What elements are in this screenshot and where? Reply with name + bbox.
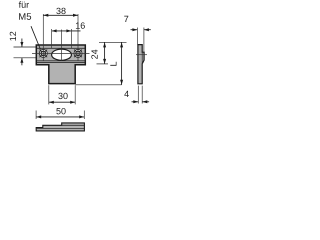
svg-text:50: 50 <box>56 106 66 116</box>
left hole counterbore outer circle <box>39 49 47 57</box>
dim 4 ext lines <box>137 86 139 104</box>
dim 12 line with outside arrows <box>21 39 23 48</box>
dim 24 line with arrows <box>104 42 106 64</box>
dim L bottom ext line <box>76 84 122 86</box>
hole centerline horizontal <box>32 53 90 55</box>
dim 4 line outside arrows <box>132 101 139 103</box>
dim 30 line with arrows <box>49 101 75 103</box>
node: slot vertical centerline <box>61 30 63 61</box>
side view centerline stub <box>136 54 147 56</box>
dim 12 ext lines <box>14 46 37 48</box>
svg-text:L: L <box>108 61 118 66</box>
dim 50 ext lines <box>35 111 37 120</box>
dim 7 ext lines <box>136 28 138 45</box>
svg-text:für: für <box>19 0 30 10</box>
svg-text:M5: M5 <box>18 12 31 23</box>
dim 24/L shared top ext line <box>99 41 127 43</box>
node: left hole vertical centerline <box>42 14 44 61</box>
dim 38 line with arrows <box>43 14 78 16</box>
slot (oblong hole) <box>52 49 72 60</box>
side view plate edge line behind boss <box>141 52 143 64</box>
svg-text:12: 12 <box>8 31 18 41</box>
dim 7 line outside arrows <box>131 29 138 31</box>
bottom view inner line mid step <box>62 124 84 126</box>
svg-text:30: 30 <box>58 91 68 101</box>
right hole thread X marks <box>74 50 82 58</box>
right hole counterbore outer circle <box>74 49 82 57</box>
dim 24 bottom ext line <box>97 63 109 65</box>
left hole thread X marks <box>39 50 47 58</box>
side view bar with boss <box>138 45 144 84</box>
svg-text:4: 4 <box>124 89 129 99</box>
svg-text:16: 16 <box>75 21 85 31</box>
svg-text:7: 7 <box>124 14 129 24</box>
front view T-plate body <box>36 45 85 84</box>
bottom view inner line near bottom <box>37 127 84 129</box>
chamfer edge line <box>37 62 85 64</box>
dim16 ext lines <box>51 29 53 49</box>
boss bottom edge line <box>37 60 85 62</box>
dim L line with arrows <box>121 42 123 84</box>
svg-text:24: 24 <box>90 49 100 59</box>
dim 16 line with arrows <box>52 30 81 32</box>
dim 30 ext lines <box>48 85 50 104</box>
dim 50 line with arrows <box>36 116 84 118</box>
leader line from M5 text to left hole <box>31 26 41 49</box>
left hole thread inner ring <box>41 51 45 55</box>
right hole thread inner ring <box>76 51 80 55</box>
bottom view stepped profile <box>36 123 84 131</box>
svg-text:38: 38 <box>56 6 66 16</box>
boss top edge line <box>37 47 85 49</box>
node: right hole vertical centerline <box>77 14 79 61</box>
